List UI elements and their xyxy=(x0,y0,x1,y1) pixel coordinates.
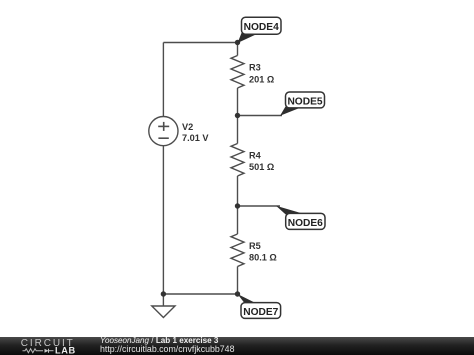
voltage source V2 circle xyxy=(149,117,178,146)
node NODE5 flag xyxy=(280,92,325,116)
ground stub wire xyxy=(162,294,164,306)
svg-text:7.01 V: 7.01 V xyxy=(182,133,209,143)
wire R4 to node6 junction xyxy=(237,176,239,234)
wire R3 to node5 junction xyxy=(237,88,239,144)
junction node5 xyxy=(235,113,240,118)
footer credit line 1 xyxy=(100,336,218,345)
wire bottom horizontal xyxy=(163,293,237,295)
junction node4 xyxy=(235,40,240,45)
ground xyxy=(152,306,175,318)
node NODE7 flag xyxy=(238,294,281,318)
wire left vertical upper xyxy=(162,43,164,117)
wire top horizontal xyxy=(163,42,237,44)
V2 minus sign xyxy=(158,137,168,139)
footer bar xyxy=(0,337,474,355)
svg-text:NODE4: NODE4 xyxy=(244,22,279,33)
svg-text:R4: R4 xyxy=(249,151,262,161)
svg-text:R3: R3 xyxy=(249,63,261,73)
svg-text:R5: R5 xyxy=(249,241,261,251)
junction node6 xyxy=(235,203,240,208)
svg-text:201 Ω: 201 Ω xyxy=(249,74,274,84)
logo resistor zigzag xyxy=(23,349,44,353)
junction ground xyxy=(161,291,166,296)
footer credit line 2 xyxy=(100,344,234,354)
wire right segment node4 to R3 xyxy=(237,43,239,56)
svg-text:NODE5: NODE5 xyxy=(287,96,322,107)
wire left vertical lower xyxy=(162,146,164,294)
wire stub node6 xyxy=(238,205,281,207)
resistor R4 xyxy=(231,144,244,177)
svg-text:501 Ω: 501 Ω xyxy=(249,162,274,172)
label V2 value xyxy=(182,63,277,263)
svg-text:80.1 Ω: 80.1 Ω xyxy=(249,253,277,263)
svg-text:V2: V2 xyxy=(182,122,193,132)
node NODE4 flag xyxy=(238,17,282,43)
wire R5 to bottom xyxy=(237,267,239,295)
junction node7 xyxy=(235,291,240,296)
V2 plus sign xyxy=(158,122,169,138)
svg-text:LAB: LAB xyxy=(55,346,76,355)
svg-text:NODE6: NODE6 xyxy=(288,218,323,229)
resistor R3 xyxy=(231,56,244,89)
wire stub node5 xyxy=(238,115,283,117)
resistor R5 xyxy=(231,234,244,267)
node NODE6 flag xyxy=(276,206,325,230)
svg-text:NODE7: NODE7 xyxy=(243,307,278,318)
logo diode xyxy=(45,349,49,353)
circuitlab logo xyxy=(0,337,90,355)
